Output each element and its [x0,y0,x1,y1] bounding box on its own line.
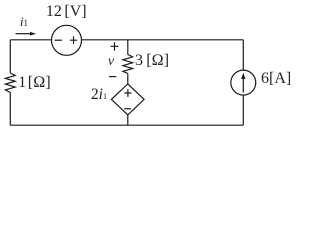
minus sign of v label [109,76,116,78]
wire middle upper stub [127,40,129,55]
dependent source E1 diamond [111,84,144,115]
plus sign inside voltage source [70,36,77,44]
wire left lower stub [9,93,11,126]
label 6A [261,70,291,88]
resistor R2 3ohm zigzag [123,55,133,74]
i1 current arrowhead [30,32,36,36]
plus sign of v label [111,42,119,51]
label v [108,54,114,70]
label 1ohm [18,74,50,92]
current source I1 circle [231,70,256,95]
wire top left segment [10,39,51,41]
wire right lower stub [242,95,244,125]
wire middle mid stub [127,74,129,84]
minus sign inside voltage source [55,39,62,41]
current source arrowhead [241,73,245,79]
wire bottom [10,124,243,126]
voltage source U1 circle [52,25,82,55]
label 3ohm [135,52,169,70]
minus sign inside diamond [124,108,131,110]
label 12[V] [46,3,87,21]
label 2i1 [91,86,107,104]
resistor R1 1ohm zigzag [5,73,15,93]
wire left upper stub [9,40,11,73]
wire top right segment [81,39,243,41]
wire middle lower stub [127,115,129,125]
wire right upper stub [242,40,244,70]
current source arrow shaft [242,79,244,93]
i1 current arrow shaft [16,33,32,35]
label i1 [20,14,28,30]
plus sign inside diamond [124,89,131,97]
